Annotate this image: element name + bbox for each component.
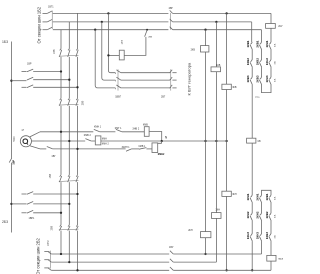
svg-text:1КВ: 1КВ bbox=[216, 64, 221, 67]
wire row C 3 bbox=[132, 148, 139, 150]
relay coil KMG bbox=[152, 143, 158, 153]
switch group 2 linkage bbox=[59, 103, 79, 106]
wire col3 inter1 bbox=[270, 50, 272, 60]
disconnector VUG blade right 3 bbox=[170, 85, 173, 88]
svg-text:КМН2: КМН2 bbox=[158, 153, 165, 156]
svg-text:2КН1: 2КН1 bbox=[256, 193, 260, 200]
svg-text:От секции шин 2Б2: От секции шин 2Б2 bbox=[35, 238, 40, 274]
wire col1 down to coil KV bbox=[251, 85, 253, 138]
svg-text:1КН2: 1КН2 bbox=[265, 58, 269, 65]
wire rail3 left bbox=[51, 269, 169, 271]
node row A phase-A tap bbox=[60, 131, 62, 133]
svg-text:1ВР: 1ВР bbox=[27, 62, 32, 65]
contact KMG1 blade bbox=[116, 129, 122, 131]
wire row A 2 bbox=[100, 131, 116, 133]
svg-text:ЗНВ 2: ЗНВ 2 bbox=[132, 127, 139, 130]
node bus A tap x226 bbox=[225, 12, 227, 14]
contact block-bottom r1c1 bbox=[251, 195, 253, 197]
switch group 1 blade at x=69.3 bbox=[68, 50, 70, 57]
disconnector 1VU blade rail2 bbox=[170, 259, 173, 262]
disconnector 2VG blade phase C bbox=[170, 27, 173, 30]
feeder 2B2 stub 2 bbox=[44, 259, 49, 261]
svg-text:КМН: КМН bbox=[102, 138, 107, 140]
wire col1b to rail3 bbox=[251, 241, 253, 270]
svg-text:з.в.: з.в. bbox=[274, 60, 277, 64]
wire bus B corner down to col1 bbox=[251, 22, 253, 42]
svg-text:2ВВ: 2ВВ bbox=[81, 100, 84, 105]
svg-text:1КВ3: 1КВ3 bbox=[246, 75, 250, 82]
svg-text:з.в.: з.в. bbox=[274, 214, 277, 218]
wire bus 1B2 phase A (top busbar) bbox=[53, 12, 169, 14]
wire rail2 left bbox=[51, 261, 169, 263]
node tap 2B3 to switch 1VR1 bbox=[10, 203, 12, 205]
wire v205 mid bbox=[205, 52, 207, 232]
wire coil KMG to node N bbox=[158, 141, 162, 143]
switch group 4 blade at x=61.0 bbox=[59, 226, 61, 231]
wire bus 1B2 phase B right section bbox=[173, 21, 252, 23]
node row C phase-C tap bbox=[76, 148, 78, 150]
wire VUG line 3 bbox=[121, 87, 170, 89]
svg-text:КМН 1: КМН 1 bbox=[94, 126, 102, 129]
node VUG drop tap 2 bbox=[101, 21, 103, 23]
wire col2b to rail1 corner bbox=[261, 241, 263, 254]
contact block-top r3c2 bbox=[260, 77, 262, 79]
node row B phase-B tap bbox=[68, 140, 70, 142]
svg-text:1КВ1: 1КВ1 bbox=[246, 40, 250, 47]
wire v226 lower bbox=[226, 196, 228, 270]
switch 1VR blade 2 bbox=[27, 77, 33, 80]
svg-text:1КН3: 1КН3 bbox=[265, 75, 269, 82]
switch group 2 hook at x=77.5 bbox=[76, 98, 77, 100]
breaker VUG blade left 3 bbox=[116, 85, 121, 88]
svg-text:2КН2: 2КН2 bbox=[256, 211, 260, 218]
wire v205 upper bbox=[205, 30, 207, 46]
wire row B 3 bbox=[101, 140, 227, 142]
contact block-top r3c3 bbox=[269, 77, 271, 79]
linkage of disconnector 2VG bbox=[169, 13, 171, 30]
svg-text:5000: 5000 bbox=[14, 136, 16, 142]
disconnector blade from bus C bbox=[145, 30, 148, 36]
linkage of feeder switch 1VG2 bbox=[49, 251, 51, 269]
relay coil 1KN bbox=[212, 213, 222, 219]
wire phase-A vertical segment 5 bbox=[60, 231, 62, 254]
wire bus 1B2 phase C busbar bbox=[53, 29, 169, 31]
feeder 1B2 stub phase 1 bbox=[43, 12, 48, 14]
wire rail1 right bbox=[173, 253, 261, 255]
switch group 3 hook at x=69.3 bbox=[68, 175, 69, 177]
contact block-top r1c3 bbox=[269, 42, 271, 44]
feeder 2B2 stub 3 bbox=[44, 267, 49, 269]
switch group 1 linkage bbox=[59, 54, 79, 57]
switch 1VR blade 3 bbox=[27, 85, 33, 88]
switch group 4 hook at x=77.5 bbox=[76, 225, 77, 227]
wire v205 lower bbox=[205, 238, 207, 254]
wire bus C corner down to col2 bbox=[261, 30, 263, 42]
svg-text:1КН2: 1КН2 bbox=[246, 211, 250, 218]
wire bus 1B2 phase B busbar bbox=[53, 21, 169, 23]
switch group 3 blade at x=61.0 bbox=[59, 176, 61, 182]
svg-text:1Г: 1Г bbox=[21, 129, 24, 132]
wire phase-B vertical segment 2 bbox=[68, 57, 70, 98]
svg-text:1ВГ1: 1ВГ1 bbox=[48, 5, 54, 8]
node bus C tap x205 bbox=[204, 29, 206, 31]
contact block-top r1c1 bbox=[251, 42, 253, 44]
wire blade to corner bbox=[124, 37, 146, 56]
wire bus 2B3 vertical bbox=[10, 163, 12, 233]
wire col1 inter1 bbox=[251, 50, 253, 60]
contact KMV2 blade bbox=[85, 139, 91, 141]
feeder 1B2 blade phase 3 bbox=[47, 27, 52, 30]
svg-text:2КВ2: 2КВ2 bbox=[256, 58, 260, 65]
contact block-bottom r1c2 bbox=[260, 195, 262, 197]
svg-text:3КВ: 3КВ bbox=[232, 86, 237, 89]
wire coil to phase-A drop bbox=[108, 54, 119, 56]
feeder 1B2 blade phase 2 bbox=[47, 19, 52, 22]
svg-text:1ВВГ: 1ВВГ bbox=[115, 96, 122, 99]
svg-text:2КВ: 2КВ bbox=[191, 48, 196, 51]
switch group 3 linkage bbox=[59, 180, 79, 183]
linkage of feeder switch 1VG1 bbox=[51, 11, 53, 29]
node row B x205 bbox=[204, 140, 206, 142]
node 1VR1 line 2 junction bbox=[68, 203, 70, 205]
switch group 4 linkage bbox=[59, 228, 79, 231]
node bus B tap x216 bbox=[215, 21, 217, 23]
wire row B 1 bbox=[44, 140, 85, 142]
svg-text:КМВ 1: КМВ 1 bbox=[139, 146, 146, 148]
switch 1VR stub 1 bbox=[22, 71, 27, 73]
wire col2b inter2 bbox=[261, 221, 263, 234]
wire row A to node N bbox=[149, 132, 162, 142]
wire col2-col3 bracket bbox=[262, 85, 272, 93]
wire phase-C vertical segment 1 bbox=[77, 13, 79, 48]
node 1VR1 line 3 junction bbox=[60, 212, 62, 214]
wire 1VR1 line 3 bbox=[33, 212, 61, 214]
switch group 1 blade at x=61.0 bbox=[59, 50, 61, 57]
contact KMN1 blade bbox=[94, 129, 100, 131]
wire VUG line 2 bbox=[121, 79, 170, 81]
svg-text:1КН3: 1КН3 bbox=[246, 232, 250, 239]
wire col1b inter1 bbox=[251, 203, 253, 213]
wire bracket bottom block bbox=[262, 190, 272, 195]
relay coil 2KV bbox=[201, 46, 209, 52]
switch group 4 blade at x=77.5 bbox=[76, 226, 78, 231]
wire row A 3 bbox=[122, 131, 145, 133]
wire 1VR line 1 bbox=[33, 71, 61, 73]
wire v216 upper bbox=[215, 22, 217, 67]
feeder 2B2 blade 3 bbox=[48, 268, 51, 270]
svg-text:2КУ: 2КУ bbox=[278, 25, 283, 28]
node VUG drop tap 3 bbox=[94, 29, 96, 31]
switch group 3 hook at x=77.5 bbox=[76, 175, 77, 177]
node col1 on rail3 bbox=[251, 269, 253, 271]
disconnector 1VU blade rail3 bbox=[170, 267, 173, 270]
wire VUG stub 3 bbox=[172, 87, 176, 89]
tick VUG left break 1 bbox=[114, 73, 116, 74]
switch 1VR1 blade 3 bbox=[27, 210, 33, 213]
contact block-top r2c2 bbox=[260, 59, 262, 61]
wire generator lead middle bbox=[32, 140, 45, 142]
feeder 1B2 blade phase 1 bbox=[47, 11, 52, 14]
wire 1B3 to switch 1VR middle bbox=[11, 80, 26, 82]
svg-text:2ВГ: 2ВГ bbox=[161, 95, 166, 98]
node 1VR1 line 1 junction bbox=[76, 193, 78, 195]
tick VUG left break 2 bbox=[114, 80, 116, 81]
svg-text:1КВ1: 1КВ1 bbox=[265, 193, 269, 200]
switch group 2 hook at x=69.3 bbox=[68, 98, 69, 100]
node 1VR line 1 junction bbox=[60, 70, 62, 72]
disconnector 2VG blade phase B bbox=[170, 19, 173, 22]
generator G1 circle bbox=[20, 136, 31, 147]
wire col1b inter2 bbox=[251, 221, 253, 234]
relay coil 1TN bbox=[119, 50, 124, 60]
wire coil ZBP to rail3 bbox=[270, 261, 272, 270]
svg-text:2ВГ: 2ВГ bbox=[169, 7, 174, 10]
contact 1VG blade bbox=[47, 147, 53, 149]
disconnector 2VG blade phase A bbox=[170, 10, 173, 13]
contact block-bottom r2c1 bbox=[251, 213, 253, 215]
node tap at x=108.4 bbox=[107, 54, 109, 56]
wire 2B3 to switch 1VR1 middle bbox=[11, 203, 26, 205]
wire col1 to bottom block bbox=[251, 143, 253, 195]
wire phase-A vertical segment 1 bbox=[60, 30, 62, 49]
wire bus 1B2 phase A right section bbox=[173, 12, 271, 14]
switch group 1 blade at x=77.5 bbox=[76, 50, 78, 57]
svg-text:3КН: 3КН bbox=[232, 193, 237, 196]
node row B end bbox=[225, 140, 227, 142]
svg-text:КМН 2: КМН 2 bbox=[102, 143, 110, 145]
wire coil 2KU to col3 bbox=[270, 28, 272, 42]
svg-text:1ВГ2: 1ВГ2 bbox=[47, 240, 50, 246]
feeder 2B2 stub 1 bbox=[44, 251, 49, 253]
svg-text:КВ: КВ bbox=[258, 140, 261, 143]
wire rail3 right bbox=[173, 269, 271, 271]
switch group 1 hook at x=77.5 bbox=[76, 48, 77, 50]
svg-text:КМВ 2: КМВ 2 bbox=[84, 134, 92, 137]
wire VUG line 1 bbox=[121, 72, 170, 74]
svg-text:з.в.: з.в. bbox=[274, 78, 277, 82]
relay coil 2KN bbox=[201, 232, 211, 238]
svg-text:1КН1: 1КН1 bbox=[265, 40, 269, 47]
wire generator lead bottom bbox=[30, 146, 40, 149]
contact block-bottom r1c3 bbox=[269, 195, 271, 197]
svg-text:общ: общ bbox=[255, 97, 259, 99]
wire v226 mid bbox=[226, 90, 228, 192]
svg-text:КМГ 1: КМГ 1 bbox=[115, 127, 122, 130]
wire phase-B vertical segment 1 bbox=[68, 22, 70, 49]
contact block-top r2c3 bbox=[269, 59, 271, 61]
generator G1 inner symbol bbox=[23, 139, 28, 145]
wire phase-A vertical segment 3 bbox=[60, 106, 62, 175]
switch group 3 blade at x=77.5 bbox=[76, 176, 78, 182]
svg-text:ЗКИП 1: ЗКИП 1 bbox=[122, 147, 131, 149]
svg-text:1ВВ: 1ВВ bbox=[53, 49, 56, 54]
wire VUG drop 2 bbox=[102, 22, 116, 80]
switch group 3 hook at x=61.0 bbox=[60, 175, 61, 177]
wire v216 mid bbox=[215, 72, 217, 213]
switch group 3 blade at x=69.3 bbox=[68, 176, 70, 182]
contact block-top r2c1 bbox=[251, 59, 253, 61]
wire row C 2 bbox=[53, 148, 126, 150]
contact ZKIP1 blade bbox=[126, 149, 132, 152]
node v226 on rail3 bbox=[225, 269, 227, 271]
contact block-top r1c2 bbox=[260, 42, 262, 44]
tick VUG left break 3 bbox=[114, 88, 116, 89]
disconnector VUG blade right 2 bbox=[170, 77, 173, 80]
svg-text:з.в.: з.в. bbox=[274, 43, 277, 47]
wire v216 lower bbox=[215, 218, 217, 262]
wire 1VR1 line 2 bbox=[33, 203, 69, 205]
wire col2b inter1 bbox=[261, 203, 263, 213]
wire col3 inter2 bbox=[270, 67, 272, 77]
switch 1VR1 stub 3 bbox=[22, 212, 27, 214]
svg-text:2ВВ: 2ВВ bbox=[51, 225, 54, 230]
wire bus 1B2 phase C right section bbox=[173, 29, 262, 31]
switch 1VR1 stub 1 bbox=[22, 193, 27, 195]
contact block-bottom r2c3 bbox=[269, 213, 271, 215]
wire phase-B vertical segment 3 bbox=[68, 106, 70, 175]
wire col3b inter1 bbox=[270, 203, 272, 213]
wire rail1 left bbox=[51, 253, 169, 255]
feeder 1B2 stub phase 3 bbox=[43, 29, 48, 31]
svg-text:1ТН: 1ТН bbox=[121, 40, 124, 45]
wire bus 1B3 vertical bbox=[10, 42, 12, 159]
wire phase-B vertical segment 5 bbox=[68, 231, 70, 263]
relay coil KMN bbox=[95, 136, 101, 145]
node rail3 phase-C bbox=[76, 269, 78, 271]
svg-text:2КВ1: 2КВ1 bbox=[256, 40, 260, 47]
switch 1VR stub 3 bbox=[22, 86, 27, 88]
relay coil KV on col1 bbox=[247, 138, 256, 143]
node tap 1B3 to switch 1VR bbox=[10, 80, 12, 82]
svg-text:з.в.: з.в. bbox=[274, 234, 277, 238]
relay coil KMV bbox=[144, 127, 149, 137]
wire col1 inter2 bbox=[251, 67, 253, 77]
node VUG drop tap 1 bbox=[107, 12, 109, 14]
svg-text:2Б3: 2Б3 bbox=[2, 220, 8, 224]
wire VUG drop 1 bbox=[108, 13, 115, 72]
wire phase-A vertical segment 2 bbox=[60, 57, 62, 98]
wire row A 1 bbox=[40, 131, 93, 133]
wire bus A corner down bbox=[270, 13, 272, 23]
feeder 2B2 blade 1 bbox=[48, 252, 51, 254]
svg-text:1ВР: 1ВР bbox=[12, 160, 15, 165]
switch group 2 blade at x=77.5 bbox=[76, 99, 78, 105]
feeder 2B2 blade 2 bbox=[48, 260, 51, 262]
disconnector VUG blade right 1 bbox=[170, 70, 173, 73]
wire phase-C vertical segment 4 bbox=[77, 182, 79, 225]
svg-text:2КН: 2КН bbox=[188, 229, 193, 232]
node N junction bbox=[161, 140, 163, 142]
wire phase-B vertical segment 4 bbox=[68, 182, 70, 225]
svg-text:2КН3: 2КН3 bbox=[256, 232, 260, 239]
relay coil ZBP bbox=[267, 255, 276, 261]
breaker VUG blade left 2 bbox=[116, 77, 121, 80]
contact block-top r3c1 bbox=[251, 77, 253, 79]
wire phase-C vertical segment 2 bbox=[77, 57, 79, 98]
wire generator lead top bbox=[30, 132, 40, 137]
breaker VUG blade left 1 bbox=[116, 70, 121, 73]
switch group 2 blade at x=61.0 bbox=[59, 99, 61, 105]
contact block-bottom r2c2 bbox=[260, 213, 262, 215]
switch group 4 hook at x=61.0 bbox=[60, 225, 61, 227]
relay coil 2KU bbox=[266, 24, 276, 29]
svg-text:1КВ2: 1КВ2 bbox=[246, 58, 250, 65]
svg-text:пуск: пуск bbox=[278, 258, 284, 261]
wire row B 2 bbox=[91, 140, 95, 142]
svg-text:з.в.: з.в. bbox=[274, 196, 277, 200]
wire VUG drop 3 bbox=[95, 30, 115, 88]
svg-text:КМВ: КМВ bbox=[143, 123, 148, 126]
wire row C 1 bbox=[40, 148, 46, 150]
wire VUG stub 1 bbox=[172, 72, 176, 74]
wire row C 4 bbox=[146, 148, 152, 150]
switch group 1 hook at x=69.3 bbox=[68, 48, 69, 50]
node rail2 phase-B bbox=[68, 261, 70, 263]
wire phase-A vertical segment 4 bbox=[60, 182, 62, 225]
node tap on bus C for voltage relay bbox=[146, 29, 148, 31]
wire col3b to coil ZBP bbox=[270, 241, 272, 255]
svg-text:1ВР1: 1ВР1 bbox=[29, 217, 36, 220]
svg-text:1Б3: 1Б3 bbox=[2, 40, 8, 44]
svg-text:1КН: 1КН bbox=[215, 208, 220, 211]
switch 1VR blade 1 bbox=[27, 69, 33, 72]
wire rail2 right bbox=[173, 261, 216, 263]
relay coil 1KV bbox=[211, 67, 221, 72]
svg-text:2КВ3: 2КВ3 bbox=[256, 75, 260, 82]
node 1VR line 2 junction bbox=[68, 79, 70, 81]
linkage VUG disconnector bbox=[170, 69, 172, 90]
node 1VR line 3 junction bbox=[76, 86, 78, 88]
svg-text:1ВВ: 1ВВ bbox=[49, 173, 52, 178]
wire col3b inter2 bbox=[270, 221, 272, 234]
node v205 on rail1 bbox=[204, 253, 206, 255]
svg-text:К ВУГ генератора: К ВУГ генератора bbox=[187, 62, 192, 95]
wire phase-C vertical segment 5 bbox=[77, 231, 79, 271]
svg-text:1ВГ: 1ВГ bbox=[51, 155, 56, 158]
relay coil 3KV bbox=[222, 84, 231, 89]
wire 1VR line 2 bbox=[33, 79, 69, 81]
switch group 4 blade at x=69.3 bbox=[68, 226, 70, 231]
contact KMV1 blade bbox=[139, 148, 147, 150]
disconnector 1VU blade rail1 bbox=[170, 251, 173, 254]
svg-text:N: N bbox=[165, 136, 168, 140]
contact block-bottom r3c3 bbox=[269, 233, 271, 235]
svg-text:1КВ2: 1КВ2 bbox=[265, 211, 269, 218]
feeder 1B2 stub phase 2 bbox=[43, 21, 48, 23]
switch group 1 hook at x=61.0 bbox=[60, 48, 61, 50]
svg-text:2КВ: 2КВ bbox=[148, 37, 152, 39]
wire 1VR1 line 1 bbox=[33, 193, 77, 195]
switch group 4 hook at x=69.3 bbox=[68, 225, 69, 227]
switch 1VR1 blade 1 bbox=[27, 192, 33, 195]
disconnector blade on 1B3/2B3 tie bbox=[9, 158, 11, 162]
node row B x216 bbox=[215, 140, 217, 142]
wire VUG stub 2 bbox=[172, 79, 176, 81]
relay coil 3KN bbox=[222, 191, 231, 196]
wire col2 inter1 bbox=[261, 50, 263, 60]
svg-text:1КВ3: 1КВ3 bbox=[265, 232, 269, 239]
svg-text:От секции шин 1Б2: От секции шин 1Б2 bbox=[37, 6, 42, 43]
wire v226 upper bbox=[226, 13, 228, 84]
node rail1 phase-A bbox=[60, 253, 62, 255]
wire 1VR line 3 bbox=[33, 86, 77, 88]
contact block-bottom r3c2 bbox=[260, 233, 262, 235]
wire col2 inter2 bbox=[261, 67, 263, 77]
switch group 2 blade at x=69.3 bbox=[68, 99, 70, 105]
switch 1VR1 blade 2 bbox=[27, 202, 33, 205]
svg-text:1КН1: 1КН1 bbox=[246, 193, 250, 200]
contact block-bottom r3c1 bbox=[251, 233, 253, 235]
